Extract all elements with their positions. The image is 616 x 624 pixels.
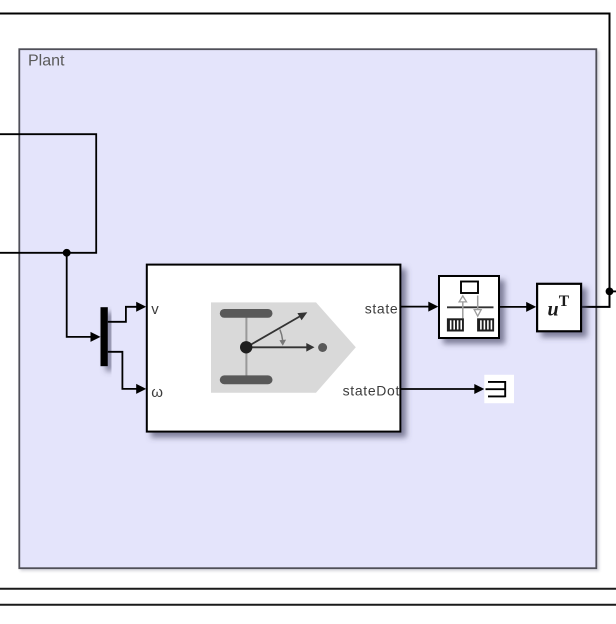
wire: stateDot to Terminator xyxy=(401,388,475,390)
block: Record xyxy=(439,276,499,338)
block: Terminator xyxy=(484,375,514,403)
icon: heading arrow diagonal xyxy=(246,316,300,347)
svg-text:stateDot: stateDot xyxy=(343,383,400,399)
Record icon: right striped box xyxy=(477,318,494,331)
Record icon: display rect xyxy=(461,282,478,294)
junction dot on right feedback wire xyxy=(606,288,614,296)
demux D1 xyxy=(101,307,108,366)
wire: stub from right junction to image edge xyxy=(610,290,616,292)
arrowhead into Demux xyxy=(91,332,101,342)
block: Differential Drive Kinematic Model xyxy=(147,265,401,432)
icon: target dot xyxy=(318,343,327,352)
svg-text:state: state xyxy=(365,300,399,316)
Record icon: horizontal line xyxy=(447,306,494,308)
icon: angle arc with arrowhead xyxy=(280,330,283,341)
arrowhead into Record xyxy=(428,302,438,312)
wire: state to Record xyxy=(401,306,429,308)
Terminator icon xyxy=(486,381,506,397)
Record icon: gray up arrow xyxy=(462,302,464,318)
block: Math Function transpose uT xyxy=(537,284,581,332)
Record icon: gray down arrow xyxy=(477,296,479,310)
wire: top feedback line from Transpose output up and across the top xyxy=(0,14,610,307)
svg-text:u: u xyxy=(548,298,559,320)
svg-text:Plant: Plant xyxy=(28,53,65,70)
wire: Record to Transpose xyxy=(500,306,527,308)
Record icon: left striped box xyxy=(447,318,464,331)
bottom boundary line 2 xyxy=(0,604,616,606)
icon: center dot xyxy=(240,341,252,353)
wire: Demux out1 to port v xyxy=(108,307,137,322)
bottom boundary line 1 xyxy=(0,588,616,590)
icon: velocity arrow horizontal xyxy=(246,346,306,348)
junction dot on left lower wire xyxy=(63,249,71,257)
icon: axle xyxy=(245,314,247,379)
wire: left input loop (two horizontals joined at x=96) xyxy=(0,134,96,253)
icon: bottom wheel xyxy=(220,375,273,384)
Plant area xyxy=(19,49,596,568)
arrowhead into port v xyxy=(136,302,146,312)
svg-text:v: v xyxy=(151,301,159,318)
svg-text:T: T xyxy=(559,293,570,310)
arrowhead into port w xyxy=(136,384,146,394)
icon: top wheel xyxy=(220,309,273,318)
wire: Demux out2 to port w xyxy=(108,352,137,389)
svg-text:ω: ω xyxy=(151,384,163,401)
arrowhead into Transpose xyxy=(526,302,536,312)
wire: branch from left junction down to Demux input xyxy=(67,253,92,337)
arrowhead into Terminator xyxy=(474,384,484,394)
icon: robot chassis pentagon xyxy=(211,302,356,392)
